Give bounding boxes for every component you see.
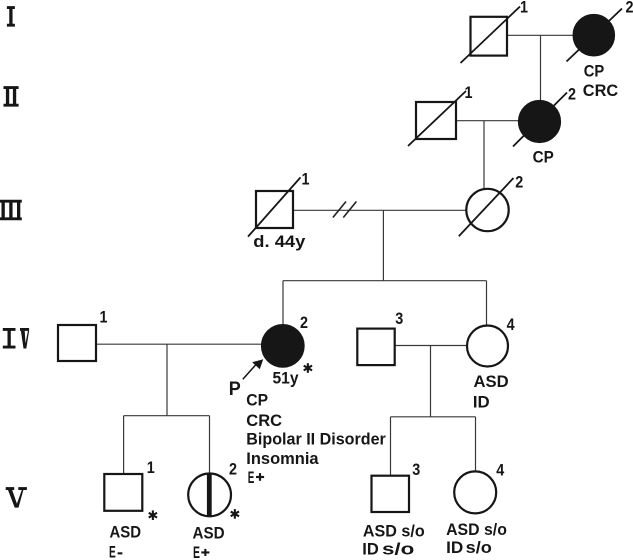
svg-text:P: P [229, 378, 241, 400]
svg-text:1: 1 [302, 170, 310, 188]
svg-text:Bipolar II Disorder: Bipolar II Disorder [246, 429, 386, 448]
svg-text:CRC: CRC [246, 411, 282, 430]
svg-text:s/o: s/o [382, 540, 414, 559]
svg-text:2: 2 [300, 314, 308, 332]
svg-text:ASD s/o: ASD s/o [446, 520, 507, 539]
svg-text:2: 2 [229, 461, 237, 479]
svg-text:3: 3 [395, 310, 403, 328]
svg-text:1: 1 [100, 309, 108, 327]
svg-text:ID: ID [446, 538, 463, 557]
svg-text:1: 1 [520, 0, 528, 17]
svg-text:ID: ID [362, 540, 379, 559]
svg-text:Insomnia: Insomnia [246, 449, 319, 468]
svg-text:3: 3 [412, 461, 420, 479]
svg-text:d. 44y: d. 44y [253, 232, 306, 251]
svg-text:CP: CP [584, 62, 605, 81]
svg-text:4: 4 [507, 316, 516, 334]
svg-text:4: 4 [496, 461, 505, 479]
svg-text:E: E [193, 543, 200, 560]
svg-text:2: 2 [515, 174, 523, 192]
svg-text:ASD: ASD [474, 372, 509, 391]
svg-text:s/o: s/o [466, 538, 492, 557]
svg-text:1: 1 [465, 84, 473, 102]
svg-text:51y: 51y [273, 369, 299, 388]
svg-text:E: E [248, 468, 255, 487]
svg-text:CRC: CRC [583, 81, 618, 100]
svg-text:ASD s/o: ASD s/o [363, 522, 425, 541]
svg-text:E: E [109, 543, 116, 560]
svg-text:2: 2 [568, 86, 576, 104]
svg-text:CP: CP [246, 391, 268, 410]
svg-text:2: 2 [626, 0, 633, 17]
svg-text:ASD: ASD [110, 523, 142, 542]
svg-text:ID: ID [473, 392, 490, 411]
svg-text:CP: CP [533, 147, 554, 166]
svg-text:1: 1 [147, 459, 155, 477]
svg-text:ASD: ASD [193, 523, 225, 542]
